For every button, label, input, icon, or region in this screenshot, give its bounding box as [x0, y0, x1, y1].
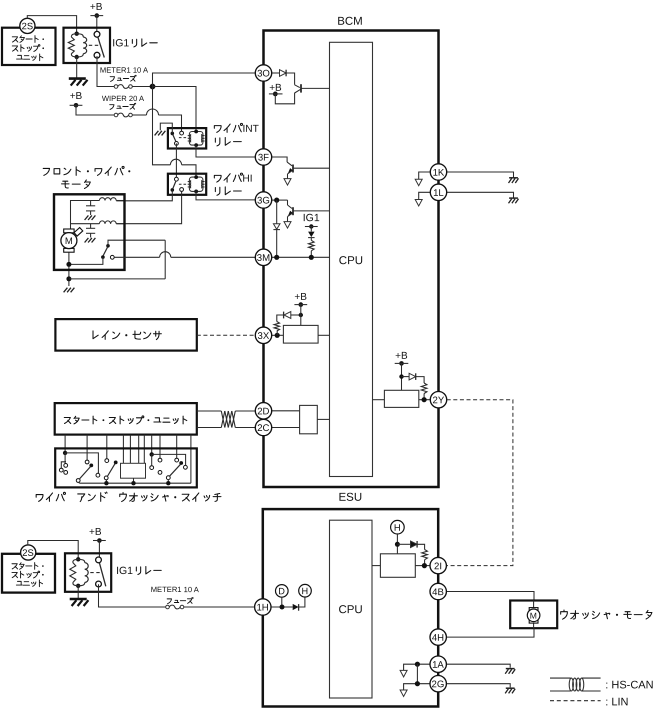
svg-text:ESU: ESU	[338, 492, 362, 504]
svg-text:4H: 4H	[432, 633, 444, 644]
svg-text:+B: +B	[294, 292, 307, 303]
arrow out (1A)	[400, 670, 407, 677]
svg-text:CPU: CPU	[338, 604, 362, 616]
wire HI switch common to motor	[116, 190, 172, 201]
wire 2G interior	[404, 681, 430, 690]
connector 4H	[430, 629, 446, 645]
wire 2S to IG1 relay coil (bottom)	[28, 541, 78, 560]
svg-text:+B: +B	[90, 2, 103, 13]
LIN bus 2Y to 2I (dashed)	[446, 400, 513, 566]
wire INT coil to 3F	[196, 145, 255, 157]
resistor (3X pullup)	[274, 315, 283, 335]
connector 2I	[430, 557, 446, 573]
connector 1H	[255, 599, 271, 615]
svg-text:2I: 2I	[434, 561, 442, 572]
fuse METER1 10 A	[97, 56, 153, 88]
svg-text:2G: 2G	[432, 679, 445, 690]
start-stop unit box (middle)	[55, 403, 197, 435]
svg-text:2S: 2S	[22, 547, 33, 558]
power +B (Q1)	[269, 83, 283, 97]
ground (2G)	[505, 688, 515, 693]
connector 1L	[430, 184, 446, 200]
svg-text:IG1: IG1	[112, 37, 129, 49]
svg-text:H: H	[301, 586, 308, 596]
wiper INT relay	[168, 123, 259, 148]
wire 2S to IG1 relay coil	[27, 16, 76, 34]
svg-text:IG1: IG1	[116, 565, 133, 577]
svg-text:3F: 3F	[258, 153, 269, 164]
connector 1A	[430, 656, 446, 672]
ground (INT relay common)	[155, 123, 173, 135]
wire 1L to ground	[447, 192, 514, 198]
svg-text:WIPER 20 A: WIPER 20 A	[102, 94, 145, 103]
svg-text:3O: 3O	[257, 69, 270, 80]
node junction (IG1 feed)	[150, 84, 156, 90]
resistor (IG1)	[309, 238, 315, 258]
svg-text:4B: 4B	[432, 587, 444, 598]
node 3X junction	[272, 333, 284, 338]
wire Q2 to CPU	[293, 167, 330, 169]
washer motor box	[510, 601, 652, 629]
svg-text:1A: 1A	[432, 660, 444, 671]
wire 1A interior	[404, 662, 430, 671]
connector 2S (bottom)	[21, 545, 36, 560]
svg-text:: LIN: : LIN	[605, 696, 628, 708]
wire 1K left arrow	[419, 172, 431, 179]
diode (3O input)	[272, 70, 295, 85]
wire 4H to washer motor	[446, 628, 534, 637]
connector 2D	[255, 403, 271, 419]
svg-text:3G: 3G	[257, 196, 270, 207]
wire 1L left arrow	[419, 192, 431, 199]
wire 1H junction	[271, 605, 293, 610]
diode (3G to 3M)	[273, 200, 280, 257]
svg-text:1H: 1H	[256, 603, 268, 614]
pin H (top)	[391, 520, 405, 534]
connector 2Y	[430, 392, 446, 408]
wire rain sensor to 3X (dashed)	[197, 334, 256, 336]
transistor Q2 (3F)	[272, 157, 293, 178]
interface box (3X)	[283, 325, 329, 343]
svg-text:M: M	[65, 236, 73, 247]
driver box (2I)	[372, 554, 430, 578]
svg-text:H: H	[394, 522, 401, 533]
connector 2G	[430, 676, 446, 692]
node 3G junction	[272, 198, 288, 203]
connector 2S (top)	[20, 18, 35, 33]
legend HS-CAN	[550, 678, 654, 691]
svg-text:METER1 10 A: METER1 10 A	[100, 66, 149, 75]
wire 1A-2G link	[416, 664, 418, 684]
svg-text:+B: +B	[89, 527, 102, 538]
wire park switch loop	[69, 240, 165, 279]
svg-text:1L: 1L	[433, 188, 444, 199]
wire INT switch to HI relay	[175, 143, 177, 177]
twisted pair to 2D/2C	[197, 411, 256, 428]
start-stop unit box (top)	[2, 28, 56, 65]
svg-text:2S: 2S	[22, 20, 33, 31]
power +B (top left)	[90, 2, 103, 32]
legend LIN	[550, 696, 629, 708]
wire 1A to ground	[446, 664, 510, 668]
pin D	[276, 585, 289, 605]
arrow out (1L)	[415, 200, 422, 207]
CPU box (BCM)	[330, 42, 373, 476]
connector 3M	[255, 249, 271, 265]
svg-text:M: M	[530, 611, 537, 621]
svg-text:INT: INT	[242, 124, 258, 135]
fuse METER1 10 A (bottom)	[99, 584, 255, 609]
svg-text:2C: 2C	[257, 423, 269, 434]
svg-text:1K: 1K	[433, 168, 445, 179]
front wiper motor	[43, 166, 165, 286]
wire Q3 to CPU	[293, 210, 330, 212]
svg-text:METER1 10 A: METER1 10 A	[151, 585, 200, 594]
diode (2Y)	[402, 373, 425, 383]
wire junction to 3O	[153, 73, 256, 87]
pin H (1H)	[299, 584, 312, 597]
power +B (3X)	[294, 292, 307, 325]
power +B (bottom)	[89, 527, 106, 557]
power +B (wiper fuse)	[70, 91, 83, 108]
arrow out (2G)	[400, 690, 407, 697]
wire 3M to CPU	[272, 255, 330, 260]
connector 4B	[430, 583, 446, 599]
BCM box	[264, 16, 439, 487]
svg-text:D: D	[278, 586, 285, 596]
interface box (2D/2C)	[272, 405, 330, 433]
svg-text:3M: 3M	[257, 253, 270, 264]
wiper and washer switch box	[36, 435, 221, 502]
svg-text:IG1: IG1	[303, 212, 320, 224]
wire 4B to washer motor	[446, 592, 534, 601]
power IG1 tick	[305, 224, 318, 228]
svg-text:2Y: 2Y	[432, 395, 444, 406]
svg-text:CPU: CPU	[339, 255, 363, 267]
ground (1L)	[509, 198, 519, 203]
wire park switch to 3M	[114, 252, 255, 258]
fuse WIPER 20 A	[76, 94, 182, 131]
wire Q1 base to CPU	[301, 87, 330, 89]
svg-text:+B: +B	[395, 351, 408, 362]
svg-text:BCM: BCM	[337, 16, 363, 28]
IG1 relay (top)	[64, 28, 158, 63]
wire H to driver	[395, 534, 400, 554]
wire +B to Q1	[275, 93, 294, 104]
diode (3X pullup)	[284, 312, 301, 319]
wiper HI relay	[168, 173, 253, 195]
wire HI switch NO to motor low	[116, 191, 181, 223]
arrow out (Q2)	[284, 179, 291, 186]
ESU box	[263, 492, 438, 707]
wire 2G to ground	[446, 684, 510, 688]
diode (2I)	[397, 541, 424, 550]
connector 3G	[255, 192, 271, 208]
arrow out (Q3)	[284, 222, 291, 229]
connector 1K	[430, 164, 446, 180]
wire IG1 feed down to HI relay coil	[153, 87, 197, 177]
transistor Q3 (3G)	[288, 200, 294, 221]
power +B (2Y)	[395, 351, 409, 366]
rain sensor box	[55, 319, 196, 351]
label IG1	[303, 212, 320, 224]
ground (under top IG1 relay)	[69, 57, 88, 85]
svg-text:3X: 3X	[258, 331, 270, 342]
svg-text:HI: HI	[242, 174, 252, 185]
start-stop unit box (bottom)	[2, 554, 55, 593]
diode (1H)	[293, 597, 305, 611]
ground (1K)	[509, 178, 519, 183]
arrow out (1K)	[415, 179, 422, 186]
connector 3F	[255, 149, 271, 165]
wire IG1 feed to INT relay coil	[153, 87, 197, 132]
IG1 relay (bottom)	[65, 553, 161, 592]
wire HI coil to 3G	[196, 191, 255, 200]
CPU box (ESU)	[330, 520, 373, 698]
resistor (2Y)	[421, 383, 427, 400]
connector 3O	[255, 65, 271, 81]
connector 3X	[255, 327, 271, 343]
ground (bottom IG1 relay)	[70, 586, 89, 606]
wire +B down (2Y)	[399, 363, 403, 390]
svg-text:2D: 2D	[257, 406, 269, 417]
resistor (2I)	[422, 550, 428, 566]
svg-text:: HS-CAN: : HS-CAN	[605, 679, 653, 691]
driver box (2Y)	[373, 390, 431, 407]
ground (1A)	[505, 669, 515, 674]
svg-text:+B: +B	[70, 91, 83, 102]
diode (IG1)	[308, 227, 315, 238]
ground (motor)	[64, 288, 75, 293]
transistor Q1 (3O)	[295, 84, 301, 93]
wire 1K to ground	[447, 172, 514, 178]
connector 2C	[255, 419, 271, 435]
